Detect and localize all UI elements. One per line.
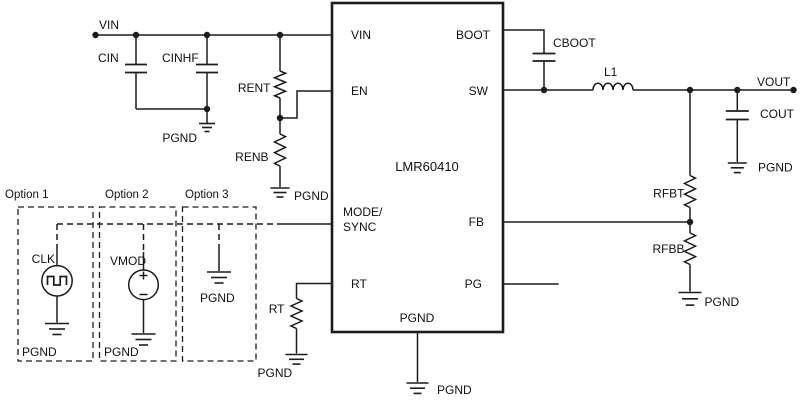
wire CLK dashed drop xyxy=(56,224,58,247)
ground PGND at COUT xyxy=(728,163,747,173)
wire VMOD dashed drop xyxy=(143,224,145,252)
wire SW to L1 xyxy=(503,89,593,91)
label PGND at CINHF xyxy=(162,131,197,145)
wire MODE/SYNC solid stub xyxy=(277,223,332,225)
pin label BOOT (U1) xyxy=(456,28,491,42)
wire PG stub xyxy=(503,283,559,285)
pin label EN (U1) xyxy=(351,84,368,98)
svg-text:PGND: PGND xyxy=(294,189,329,203)
svg-text:MODE/: MODE/ xyxy=(343,205,383,219)
label COUT xyxy=(760,107,795,121)
label Option 2 xyxy=(105,189,148,201)
label CIN xyxy=(98,51,119,65)
svg-text:VOUT: VOUT xyxy=(757,75,791,89)
wire CINHF top lead xyxy=(206,35,208,65)
label RFBB xyxy=(652,242,684,256)
svg-text:PGND: PGND xyxy=(705,295,740,309)
svg-text:PGND: PGND xyxy=(437,383,472,397)
svg-text:RENT: RENT xyxy=(238,81,271,95)
wire VIN input rail xyxy=(96,34,333,36)
label L1 xyxy=(604,65,618,79)
ground PGND at Option 3 xyxy=(207,272,231,283)
svg-text:VIN: VIN xyxy=(99,18,119,32)
resistor RENB xyxy=(275,134,286,166)
label CBOOT xyxy=(553,36,596,50)
label PGND at Option 3 xyxy=(200,291,235,305)
wire Option3 ground lead xyxy=(218,248,220,271)
svg-text:RT: RT xyxy=(351,277,367,291)
label VOUT net xyxy=(757,75,791,89)
dashed box Option 1 xyxy=(18,207,93,361)
source VMOD voltage source xyxy=(129,270,159,300)
svg-text:RT: RT xyxy=(269,302,285,316)
svg-text:CINHF: CINHF xyxy=(162,51,199,65)
svg-text:FB: FB xyxy=(469,215,484,229)
svg-text:L1: L1 xyxy=(604,65,618,79)
label RENT xyxy=(238,81,271,95)
wire RENT top lead xyxy=(279,35,281,71)
node junction RENT/RENB/EN xyxy=(277,115,283,121)
wire CINHF bottom lead xyxy=(206,73,208,110)
svg-text:VIN: VIN xyxy=(351,28,371,42)
svg-text:CBOOT: CBOOT xyxy=(553,36,596,50)
capacitor COUT xyxy=(726,111,749,120)
node junction FB xyxy=(687,219,693,225)
svg-text:PGND: PGND xyxy=(758,161,793,175)
wire RT pin connection xyxy=(297,284,333,299)
node VOUT output terminal xyxy=(790,87,796,93)
wire RENT bottom lead xyxy=(279,98,281,118)
svg-text:Option 1: Option 1 xyxy=(5,189,48,201)
node junction CINHF/VIN rail xyxy=(204,32,210,38)
svg-text:SYNC: SYNC xyxy=(343,220,377,234)
label Option 1 xyxy=(5,189,48,201)
svg-text:LMR60410: LMR60410 xyxy=(395,159,459,174)
wire RFBB ground lead xyxy=(689,265,691,292)
source CLK clock generator xyxy=(42,266,72,296)
label Option 3 xyxy=(185,189,228,201)
dashed box Option 3 xyxy=(183,207,257,361)
wire CIN top lead xyxy=(135,35,137,65)
svg-text:Option 3: Option 3 xyxy=(185,189,228,201)
label PGND at Option 2 xyxy=(104,345,139,359)
resistor RFBT xyxy=(685,176,696,208)
label VMOD xyxy=(110,254,146,268)
pin label MODE/SYNC (U1) xyxy=(343,205,383,234)
node junction CBOOT/SW xyxy=(541,87,547,93)
wire FB connection xyxy=(503,221,690,223)
ground PGND at RENB xyxy=(271,188,290,197)
svg-text:RFBT: RFBT xyxy=(653,187,685,201)
value label LMR60410 xyxy=(395,159,459,174)
node junction COUT/VOUT rail xyxy=(734,87,740,93)
resistor RT xyxy=(291,299,302,329)
svg-text:PGND: PGND xyxy=(162,131,197,145)
svg-text:PGND: PGND xyxy=(258,366,293,380)
svg-text:PGND: PGND xyxy=(104,345,139,359)
pin label SW (U1) xyxy=(469,84,489,98)
label RENB xyxy=(235,150,268,164)
wire RFBT top lead xyxy=(689,90,691,176)
node junction RENT/VIN rail xyxy=(277,32,283,38)
wire RENB ground lead xyxy=(279,166,281,187)
wire RFBB top lead xyxy=(689,222,691,233)
svg-text:CLK: CLK xyxy=(32,252,55,266)
label RFBT xyxy=(653,187,685,201)
wire MODE/SYNC dashed net xyxy=(57,223,277,225)
node VIN input terminal xyxy=(92,32,98,38)
label CLK xyxy=(32,252,55,266)
inductor L1 xyxy=(593,83,633,90)
wire CLK top lead xyxy=(56,247,58,266)
ground PGND at VMOD xyxy=(132,334,156,345)
svg-text:RENB: RENB xyxy=(235,150,268,164)
label PGND at COUT xyxy=(758,161,793,175)
wire CIN bottom lead xyxy=(135,73,137,110)
wire BOOT connection xyxy=(503,30,544,53)
svg-text:EN: EN xyxy=(351,84,368,98)
svg-text:Option 2: Option 2 xyxy=(105,189,148,201)
wire CINHF ground lead xyxy=(206,109,208,123)
capacitor CBOOT xyxy=(533,54,556,62)
wire PGND pin lead xyxy=(417,332,419,382)
svg-text:VMOD: VMOD xyxy=(110,254,146,268)
wire VMOD bottom lead xyxy=(143,300,145,333)
resistor RENT xyxy=(275,71,286,98)
pin label PGND (U1) xyxy=(400,311,435,325)
label VIN net xyxy=(99,18,119,32)
wire CIN-CINHF bottom bus xyxy=(136,108,207,110)
svg-text:RFBB: RFBB xyxy=(652,242,684,256)
svg-text:COUT: COUT xyxy=(760,107,795,121)
svg-text:CIN: CIN xyxy=(98,51,119,65)
node junction CIN/VIN rail xyxy=(133,32,139,38)
label PGND at RENB xyxy=(294,189,329,203)
svg-text:BOOT: BOOT xyxy=(456,28,491,42)
label PGND at RT xyxy=(258,366,293,380)
label RT resistor xyxy=(269,302,285,316)
svg-text:PGND: PGND xyxy=(200,291,235,305)
wire RT ground lead xyxy=(296,329,298,354)
svg-text:PGND: PGND xyxy=(22,345,57,359)
op-amp U1 LMR60410 IC body xyxy=(332,3,503,332)
label PGND at U1 bottom xyxy=(437,383,472,397)
wire EN connection xyxy=(280,91,332,118)
wire COUT top lead xyxy=(736,90,738,111)
pin label FB (U1) xyxy=(469,215,484,229)
svg-text:PGND: PGND xyxy=(400,311,435,325)
node junction RFBT/VOUT rail xyxy=(687,87,693,93)
wire RENB top lead xyxy=(279,118,281,134)
label PGND at Option 1 xyxy=(22,345,57,359)
pin label PG (U1) xyxy=(465,277,482,291)
capacitor CIN xyxy=(125,65,147,73)
pin label VIN (U1) xyxy=(351,28,371,42)
wire RFBT bottom lead xyxy=(689,208,691,223)
ground PGND at U1 xyxy=(407,383,429,393)
wire VMOD top lead xyxy=(143,252,145,270)
ground PGND at RT xyxy=(286,355,308,365)
wire CLK bottom lead xyxy=(56,296,58,323)
wire L1 to VOUT xyxy=(633,89,794,91)
capacitor CINHF xyxy=(196,65,218,73)
ground PGND at CINHF xyxy=(199,124,215,132)
ground PGND at CLK xyxy=(45,324,69,335)
svg-text:SW: SW xyxy=(469,84,489,98)
dashed box Option 2 xyxy=(100,207,177,361)
label CINHF xyxy=(162,51,199,65)
pin label RT (U1) xyxy=(351,277,367,291)
resistor RFBB xyxy=(685,233,696,265)
wire CBOOT bottom lead xyxy=(543,61,545,90)
wire Option3 dashed drop xyxy=(218,224,220,248)
svg-text:PG: PG xyxy=(465,277,482,291)
node junction CINHF bottom xyxy=(204,106,210,112)
label PGND at RFBB xyxy=(705,295,740,309)
ground PGND at RFBB xyxy=(679,293,702,306)
wire COUT ground lead xyxy=(736,120,738,163)
